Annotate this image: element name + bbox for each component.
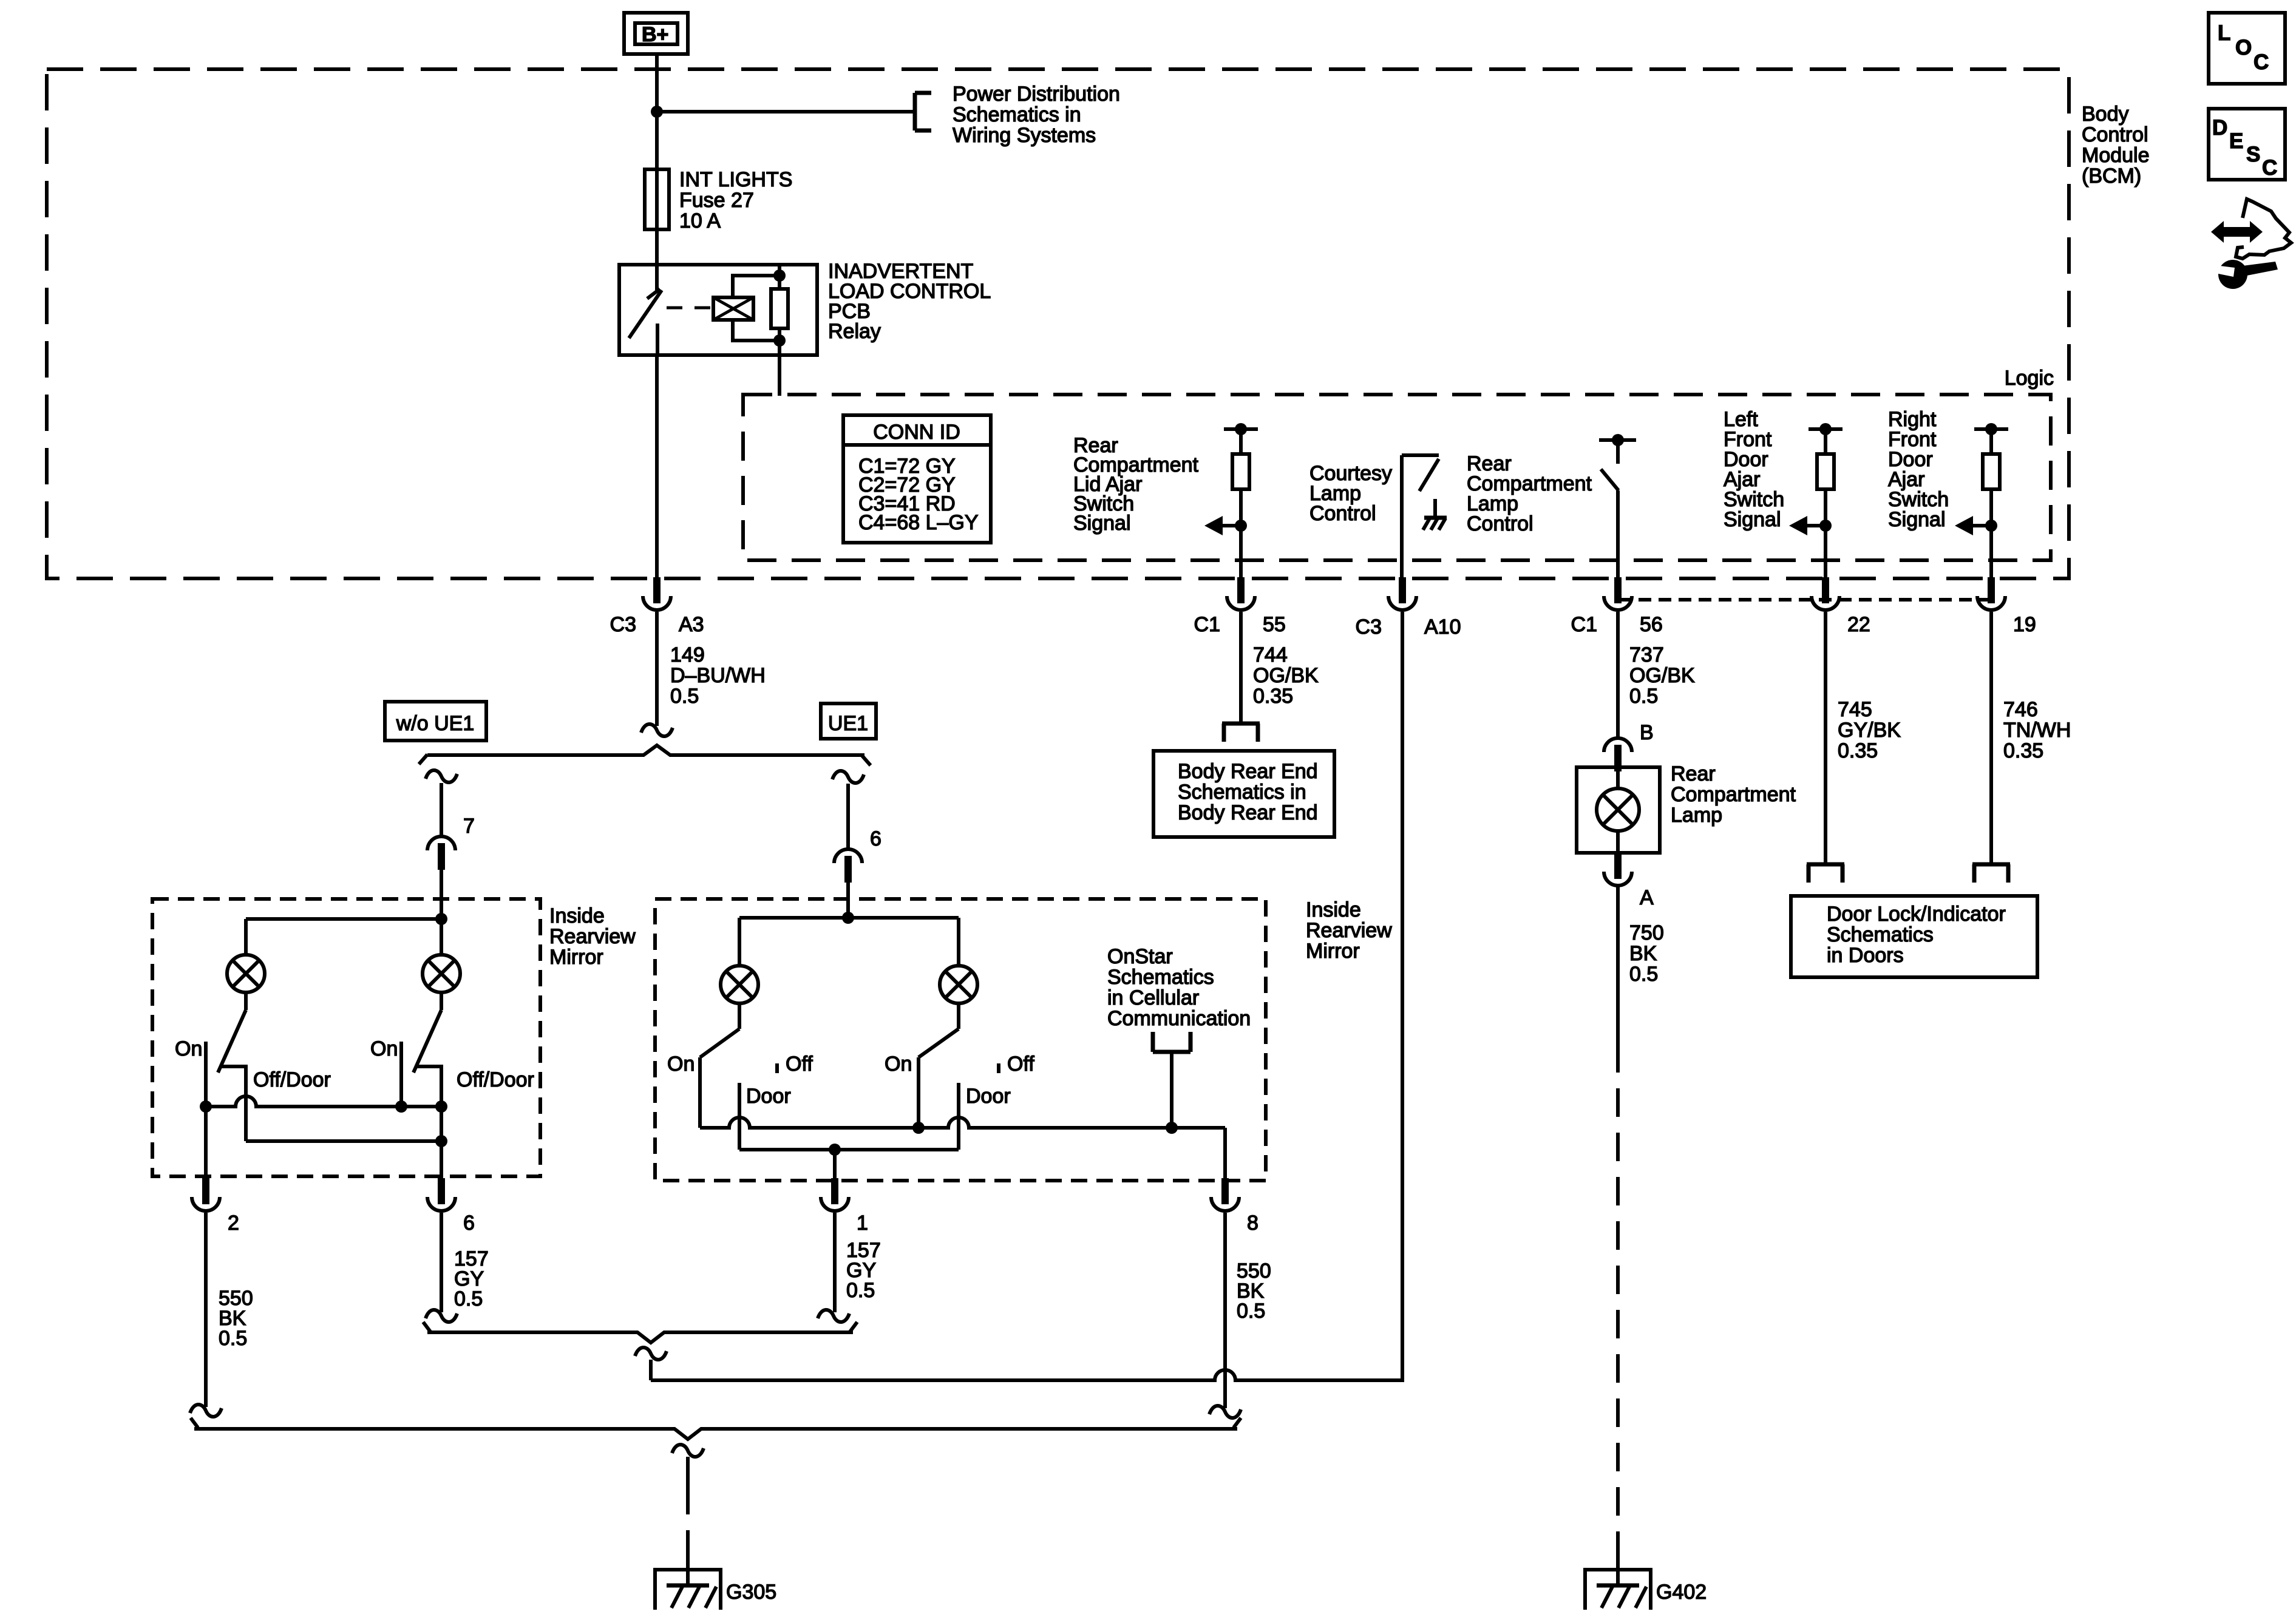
svg-text:10 A: 10 A xyxy=(679,209,721,232)
wire 157 bus to courtesy return xyxy=(649,1360,653,1380)
left switch 1 On contact xyxy=(204,1042,208,1107)
connector 6 label xyxy=(870,827,881,850)
body rear end box xyxy=(1153,751,1334,837)
left mirror top bus xyxy=(246,917,441,921)
splice to left mirror feed xyxy=(426,770,457,782)
junction On bus right xyxy=(435,1100,447,1113)
UE1 switch 2 On label xyxy=(885,1053,912,1076)
relay coil bottom lead xyxy=(733,320,779,341)
splice conn1 join xyxy=(818,1310,849,1322)
svg-text:G305: G305 xyxy=(726,1581,776,1604)
wire 157 GY left xyxy=(440,1213,443,1312)
connector 2 xyxy=(192,1178,220,1211)
UE1 switch 1 blade xyxy=(700,1003,739,1057)
svg-text:Rearview: Rearview xyxy=(549,925,636,948)
wire UE1 to connector 1 xyxy=(833,1150,837,1184)
svg-text:OG/BK: OG/BK xyxy=(1253,664,1319,687)
fuse label xyxy=(679,168,792,232)
LOC icon xyxy=(2209,13,2285,84)
UE1 door bus xyxy=(739,1148,959,1151)
Body Control Module (BCM) dashed box xyxy=(47,69,2069,578)
fitting and wrench icon xyxy=(2211,199,2291,289)
svg-text:C4=68 L–GY: C4=68 L–GY xyxy=(858,511,979,534)
wire to power distribution xyxy=(657,110,915,114)
door lock box xyxy=(1791,896,2037,977)
UE1 switch 2 Door contact xyxy=(957,1083,960,1150)
wire UE1 to connector 8 xyxy=(1223,1128,1227,1184)
DESC icon xyxy=(2209,109,2285,180)
svg-text:GY/BK: GY/BK xyxy=(1838,719,1901,742)
lid ajar pull-up bar xyxy=(1224,423,1258,435)
svg-text:Door Lock/Indicator: Door Lock/Indicator xyxy=(1827,903,2006,926)
Logic dashed box xyxy=(743,395,2051,560)
courtesy lamp switch xyxy=(1402,455,1439,491)
connector 8 xyxy=(1211,1178,1239,1211)
connector 1 xyxy=(821,1178,849,1211)
wire 750 label xyxy=(1629,921,1664,986)
744 destination bracket xyxy=(1222,724,1260,742)
junction On bus mid xyxy=(395,1100,407,1113)
UE1 On bus xyxy=(700,1117,1225,1128)
connector 19 label xyxy=(2013,613,2036,636)
svg-text:(BCM): (BCM) xyxy=(2082,164,2141,188)
OnStar bracket xyxy=(1153,1032,1190,1128)
svg-text:0.5: 0.5 xyxy=(670,685,699,708)
UE1 switch 2 Door label xyxy=(966,1085,1011,1108)
svg-text:C1: C1 xyxy=(1571,613,1597,636)
svg-text:Fuse 27: Fuse 27 xyxy=(679,189,754,212)
wire 550 BK right label xyxy=(1237,1259,1271,1323)
relay switch blade xyxy=(629,290,662,355)
svg-text:Inside: Inside xyxy=(549,904,605,927)
connector A xyxy=(1604,853,1632,886)
svg-text:6: 6 xyxy=(870,827,881,850)
wire relay coil return to logic xyxy=(778,355,781,396)
connector 8 label xyxy=(1247,1212,1258,1235)
svg-text:OG/BK: OG/BK xyxy=(1629,664,1695,687)
left switch 1 Off/Door label xyxy=(253,1068,331,1091)
relay coil top lead xyxy=(733,276,779,297)
rear lamp control label xyxy=(1467,452,1592,535)
junction coil top xyxy=(773,269,786,282)
svg-text:22: 22 xyxy=(1847,613,1870,636)
courtesy return bus xyxy=(651,612,1402,1380)
wire fuse to relay xyxy=(655,229,659,265)
svg-text:0.5: 0.5 xyxy=(219,1327,247,1350)
svg-text:7: 7 xyxy=(463,815,475,838)
svg-text:2: 2 xyxy=(228,1212,239,1235)
svg-text:OnStar: OnStar xyxy=(1107,945,1173,968)
rear lamp control blade xyxy=(1601,469,1618,490)
connector C1 pin 56 xyxy=(1604,577,1632,610)
svg-text:C3: C3 xyxy=(1356,615,1382,639)
wire relay switched output xyxy=(655,355,659,577)
svg-text:Mirror: Mirror xyxy=(1306,940,1360,963)
svg-text:Schematics: Schematics xyxy=(1107,966,1214,989)
wire to G305 dashed xyxy=(686,1486,690,1551)
svg-text:Mirror: Mirror xyxy=(549,946,603,969)
wire 550 BK left xyxy=(204,1213,208,1407)
body rear end label xyxy=(1178,760,1318,824)
connector C1 pin 55 xyxy=(1227,577,1255,610)
UE1 lamp 1 xyxy=(721,918,758,1003)
splice to UE1 mirror feed xyxy=(832,771,864,783)
UE1 switch 1 On contact xyxy=(698,1057,702,1128)
svg-text:Body Rear End: Body Rear End xyxy=(1178,801,1318,824)
connector 7 label xyxy=(463,815,475,838)
wire to connector 2 xyxy=(204,1107,208,1184)
svg-text:0.5: 0.5 xyxy=(1629,963,1658,986)
connector C3 pin A10 xyxy=(1388,577,1416,610)
svg-text:149: 149 xyxy=(670,643,705,666)
left switch 1 blade xyxy=(218,992,246,1073)
svg-text:On: On xyxy=(667,1053,695,1076)
wire rear lamp control xyxy=(1616,490,1620,577)
svg-text:Schematics in: Schematics in xyxy=(1178,781,1306,804)
connector B label xyxy=(1640,721,1654,744)
splice on wire 149 xyxy=(641,724,673,736)
UE1 switch 1 Door contact xyxy=(738,1083,741,1150)
power distribution bracket xyxy=(915,93,931,131)
wire to connector 7 xyxy=(440,783,443,836)
connector pin 19 xyxy=(1977,577,2005,610)
Logic label xyxy=(2005,367,2054,390)
left switch 1 On label xyxy=(175,1037,202,1060)
svg-text:Signal: Signal xyxy=(1888,508,1946,531)
svg-text:Schematics in: Schematics in xyxy=(953,103,1081,126)
svg-text:Lamp: Lamp xyxy=(1671,804,1722,827)
power distribution note xyxy=(953,83,1120,147)
rear compartment lamp label xyxy=(1671,762,1796,827)
left door ajar label xyxy=(1724,408,1784,531)
ground G305 xyxy=(655,1551,721,1610)
svg-text:0.35: 0.35 xyxy=(2003,739,2043,762)
w/o UE1 tag xyxy=(385,702,486,741)
wire to G305 solid xyxy=(686,1457,690,1486)
connector 6 lower xyxy=(427,1178,455,1211)
wire 750 BK solid xyxy=(1616,887,1620,1044)
splice below 157 bus xyxy=(635,1347,667,1360)
UE1 lamp 2 xyxy=(940,918,977,1003)
svg-text:1: 1 xyxy=(857,1212,868,1235)
right door ajar wire xyxy=(1989,489,1993,577)
ground G402 xyxy=(1585,1551,1651,1610)
G402 label xyxy=(1656,1581,1707,1604)
lid ajar wire xyxy=(1239,489,1243,577)
splice conn2 join xyxy=(190,1405,222,1417)
connector pin 22 xyxy=(1812,577,1839,610)
ground bus xyxy=(191,1418,1241,1439)
connector C1/56 labels xyxy=(1571,613,1663,636)
junction OnStar tap xyxy=(1166,1122,1178,1134)
wire 750 BK dashed xyxy=(1616,1044,1620,1551)
connector 6 xyxy=(834,849,862,899)
svg-text:A3: A3 xyxy=(679,613,704,636)
svg-text:Communication: Communication xyxy=(1107,1007,1251,1030)
svg-text:Module: Module xyxy=(2082,144,2150,167)
lid ajar signal arrow xyxy=(1204,516,1247,535)
svg-text:Rear: Rear xyxy=(1671,762,1716,785)
svg-text:Signal: Signal xyxy=(1724,508,1781,531)
svg-text:O: O xyxy=(2235,36,2252,59)
svg-text:C1: C1 xyxy=(1194,613,1220,636)
connector B xyxy=(1604,738,1632,771)
left mirror door bus xyxy=(246,1139,441,1143)
svg-text:55: 55 xyxy=(1263,613,1286,636)
left switch 2 Off/Door contact xyxy=(416,1066,441,1184)
svg-text:Logic: Logic xyxy=(2005,367,2054,390)
svg-text:746: 746 xyxy=(2003,698,2038,721)
left switch 2 Off/Door label xyxy=(457,1068,534,1091)
rear compartment lamp box xyxy=(1577,767,1660,853)
relay switch fixed contact xyxy=(647,265,660,299)
left door ajar wire xyxy=(1824,489,1827,577)
svg-text:Control: Control xyxy=(1467,512,1533,535)
relay mechanical link xyxy=(667,307,713,310)
left mirror feed junction xyxy=(435,899,447,925)
connector C3 pin A3 xyxy=(643,577,671,610)
splice conn6 join xyxy=(426,1310,457,1322)
courtesy lamp label xyxy=(1309,462,1392,525)
svg-text:745: 745 xyxy=(1838,698,1872,721)
junction coil bottom xyxy=(773,334,786,347)
svg-text:Signal: Signal xyxy=(1073,512,1131,535)
svg-text:G402: G402 xyxy=(1656,1581,1707,1604)
svg-text:B+: B+ xyxy=(642,23,668,46)
left mirror On bus xyxy=(206,1096,441,1107)
wire 737 label xyxy=(1629,643,1695,708)
left inside rearview mirror box xyxy=(152,899,540,1176)
svg-text:744: 744 xyxy=(1253,643,1288,666)
right door ajar resistor xyxy=(1983,429,2000,489)
157 join bus xyxy=(423,1322,857,1343)
UE1 switch 2 Off label xyxy=(1007,1053,1034,1076)
svg-text:CONN ID: CONN ID xyxy=(873,421,960,444)
connector 7 xyxy=(427,836,455,899)
745 destination bracket xyxy=(1807,864,1844,883)
svg-text:56: 56 xyxy=(1640,613,1663,636)
wire 550 BK left label xyxy=(219,1287,253,1350)
connector 2 label xyxy=(228,1212,239,1235)
svg-text:Off: Off xyxy=(786,1053,813,1076)
wire 157 GY left label xyxy=(454,1247,489,1310)
svg-text:in Cellular: in Cellular xyxy=(1107,986,1199,1009)
UE1 tag xyxy=(821,703,876,739)
svg-text:C: C xyxy=(2262,156,2277,180)
wire 737 OG/BK xyxy=(1616,612,1620,737)
svg-text:Door: Door xyxy=(966,1085,1011,1108)
left mirror label xyxy=(549,904,636,969)
svg-text:D–BU/WH: D–BU/WH xyxy=(670,664,766,687)
svg-text:in Doors: in Doors xyxy=(1827,944,1904,967)
svg-text:Inside: Inside xyxy=(1306,898,1361,921)
right door ajar label xyxy=(1888,408,1949,531)
svg-text:Door: Door xyxy=(746,1085,791,1108)
connector 1 label xyxy=(857,1212,868,1235)
svg-text:Power Distribution: Power Distribution xyxy=(953,83,1120,106)
svg-text:C3: C3 xyxy=(610,613,636,636)
svg-text:Off/Door: Off/Door xyxy=(457,1068,534,1091)
junction node xyxy=(651,106,663,118)
lid ajar resistor xyxy=(1232,429,1249,489)
svg-text:Off: Off xyxy=(1007,1053,1034,1076)
wire to connector 6 xyxy=(846,784,850,849)
svg-text:0.5: 0.5 xyxy=(846,1279,875,1302)
connector 22 label xyxy=(1847,613,1870,636)
wire 744 OG/BK xyxy=(1239,612,1243,724)
svg-text:On: On xyxy=(885,1053,912,1076)
svg-text:INT LIGHTS: INT LIGHTS xyxy=(679,168,792,191)
svg-text:D: D xyxy=(2212,116,2227,140)
svg-text:Compartment: Compartment xyxy=(1671,783,1796,806)
svg-text:0.35: 0.35 xyxy=(1838,739,1878,762)
junction door bus xyxy=(435,1135,447,1147)
svg-text:19: 19 xyxy=(2013,613,2036,636)
wire 745 GY/BK xyxy=(1824,612,1827,864)
svg-text:Relay: Relay xyxy=(828,320,881,343)
UE1 switch 2 Off contact xyxy=(997,1063,1000,1073)
left door ajar arrow xyxy=(1789,516,1832,535)
wire 746 TN/WH xyxy=(1989,612,1993,864)
wire 745 label xyxy=(1838,698,1901,762)
svg-text:0.5: 0.5 xyxy=(1237,1300,1265,1323)
svg-text:On: On xyxy=(370,1037,398,1060)
relay coil xyxy=(713,297,753,320)
left mirror lamp 1 xyxy=(227,919,265,992)
G305 label xyxy=(726,1581,776,1604)
rear lamp control contact xyxy=(1599,434,1636,464)
wire 149 label xyxy=(670,643,766,708)
svg-text:0.5: 0.5 xyxy=(454,1287,483,1310)
BCM label xyxy=(2082,103,2150,188)
relay resistor xyxy=(771,265,788,355)
fuse F27 INT LIGHTS xyxy=(645,169,669,229)
svg-text:Off/Door: Off/Door xyxy=(253,1068,331,1091)
UE1 switch 2 On contact xyxy=(917,1057,920,1128)
wire 157 GY right label xyxy=(846,1239,881,1302)
svg-text:S: S xyxy=(2246,143,2260,166)
svg-text:A: A xyxy=(1640,886,1654,909)
746 destination bracket xyxy=(1972,864,2010,883)
svg-text:8: 8 xyxy=(1247,1212,1258,1235)
svg-text:On: On xyxy=(175,1037,202,1060)
left switch 1 Off/Door contact xyxy=(221,1066,246,1141)
left switch 2 On contact xyxy=(399,1042,403,1107)
UE1 mirror feed junction xyxy=(842,899,854,924)
right door ajar arrow xyxy=(1955,516,1997,535)
connector group dotted line xyxy=(1618,598,1991,602)
svg-text:0.35: 0.35 xyxy=(1253,685,1293,708)
wire 746 label xyxy=(2003,698,2071,762)
svg-text:A10: A10 xyxy=(1424,615,1461,639)
UE1 switch 1 Door label xyxy=(746,1085,791,1108)
UE1 mirror top bus xyxy=(739,916,959,920)
rear compartment lamp xyxy=(1597,771,1639,853)
svg-text:750: 750 xyxy=(1629,921,1664,944)
splice bus wire xyxy=(419,745,871,765)
svg-text:Schematics: Schematics xyxy=(1827,923,1934,946)
UE1 switch 2 blade xyxy=(919,1003,959,1057)
junction UE1 door bus xyxy=(829,1144,841,1156)
wire 157 GY right xyxy=(833,1213,837,1312)
CONN ID table xyxy=(843,415,991,543)
wire 550 BK right xyxy=(1223,1213,1227,1408)
svg-text:E: E xyxy=(2229,129,2243,153)
connector C1/55 labels xyxy=(1194,613,1286,636)
lid ajar label xyxy=(1073,434,1199,535)
svg-text:B: B xyxy=(1640,721,1654,744)
door lock label xyxy=(1827,903,2006,967)
junction UE1 On bus xyxy=(912,1122,925,1134)
right door ajar pull-up bar xyxy=(1974,423,2008,435)
courtesy lamp ground xyxy=(1423,499,1447,530)
svg-text:Wiring Systems: Wiring Systems xyxy=(953,124,1096,147)
svg-text:0.5: 0.5 xyxy=(1629,685,1658,708)
svg-text:Control: Control xyxy=(1309,502,1376,525)
svg-text:C: C xyxy=(2254,50,2269,74)
connector A label xyxy=(1640,886,1654,909)
connector 6 lower label xyxy=(463,1212,475,1235)
svg-text:BK: BK xyxy=(1629,942,1657,965)
connector C3/A3 labels xyxy=(610,613,704,636)
splice below ground bus xyxy=(672,1445,704,1457)
OnStar note xyxy=(1107,945,1251,1030)
svg-text:Rearview: Rearview xyxy=(1306,919,1392,942)
left door ajar resistor xyxy=(1817,429,1834,489)
UE1 switch 1 On label xyxy=(667,1053,695,1076)
junction On bus left xyxy=(200,1100,212,1113)
svg-text:Body Rear End: Body Rear End xyxy=(1178,760,1318,783)
svg-text:Body: Body xyxy=(2082,103,2129,126)
left switch 2 blade xyxy=(413,992,441,1073)
wire courtesy control xyxy=(1400,455,1404,577)
connector C3/A10 labels xyxy=(1356,615,1461,639)
svg-text:UE1: UE1 xyxy=(828,712,868,735)
UE1 mirror label xyxy=(1306,898,1392,963)
wire 744 label xyxy=(1253,643,1319,708)
UE1 switch 1 Off label xyxy=(786,1053,813,1076)
svg-text:L: L xyxy=(2218,21,2230,45)
svg-text:w/o UE1: w/o UE1 xyxy=(396,712,475,735)
svg-text:Control: Control xyxy=(2082,123,2148,146)
left switch 2 On label xyxy=(370,1037,398,1060)
UE1 inside rearview mirror box xyxy=(655,899,1266,1181)
relay label xyxy=(828,260,991,343)
wire B+ to fuse xyxy=(655,54,659,169)
B+ battery terminal xyxy=(624,13,688,54)
UE1 switch 1 Off contact xyxy=(775,1063,779,1073)
splice conn8 join xyxy=(1209,1406,1241,1418)
wire 149 D-BU/WH xyxy=(655,612,659,726)
left door ajar pull-up bar xyxy=(1809,423,1843,435)
svg-text:737: 737 xyxy=(1629,643,1664,666)
svg-text:TN/WH: TN/WH xyxy=(2003,719,2071,742)
left mirror lamp 2 xyxy=(423,919,460,992)
relay box INADVERTENT LOAD CONTROL xyxy=(619,265,817,355)
svg-text:6: 6 xyxy=(463,1212,475,1235)
